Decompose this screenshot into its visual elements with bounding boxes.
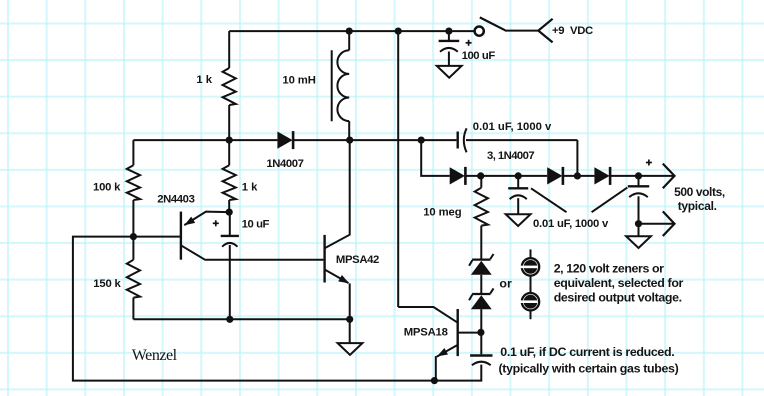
svg-text:1 k: 1 k	[242, 182, 258, 194]
svg-text:desired output voltage.: desired output voltage.	[554, 291, 682, 305]
svg-text:MPSA42: MPSA42	[336, 254, 379, 266]
svg-text:0.1 uF, if DC current is reduc: 0.1 uF, if DC current is reduced.	[500, 345, 674, 359]
svg-text:10 meg: 10 meg	[423, 206, 462, 218]
svg-text:100 uF: 100 uF	[462, 50, 496, 62]
svg-text:3, 1N4007: 3, 1N4007	[487, 150, 534, 162]
svg-text:1 k: 1 k	[196, 74, 212, 86]
svg-text:0.01 uF, 1000 v: 0.01 uF, 1000 v	[533, 218, 609, 230]
svg-text:500 volts,: 500 volts,	[674, 185, 725, 199]
svg-text:1N4007: 1N4007	[266, 158, 303, 170]
svg-text:equivalent, selected for: equivalent, selected for	[554, 276, 684, 290]
svg-text:2, 120 volt zeners or: 2, 120 volt zeners or	[554, 261, 664, 275]
svg-text:MPSA18: MPSA18	[404, 326, 448, 338]
svg-text:typical.: typical.	[678, 199, 717, 213]
svg-text:Wenzel: Wenzel	[132, 347, 178, 364]
svg-text:100 k: 100 k	[93, 182, 121, 194]
svg-text:10 mH: 10 mH	[282, 74, 315, 86]
svg-text:2N4403: 2N4403	[157, 194, 194, 206]
svg-text:or: or	[499, 276, 512, 290]
svg-text:10 uF: 10 uF	[242, 218, 270, 230]
svg-text:+9 VDC: +9 VDC	[552, 25, 593, 37]
svg-text:(typically with certain gas tu: (typically with certain gas tubes)	[499, 361, 679, 375]
svg-text:150 k: 150 k	[93, 278, 121, 290]
svg-text:0.01 uF, 1000 v: 0.01 uF, 1000 v	[473, 121, 552, 133]
